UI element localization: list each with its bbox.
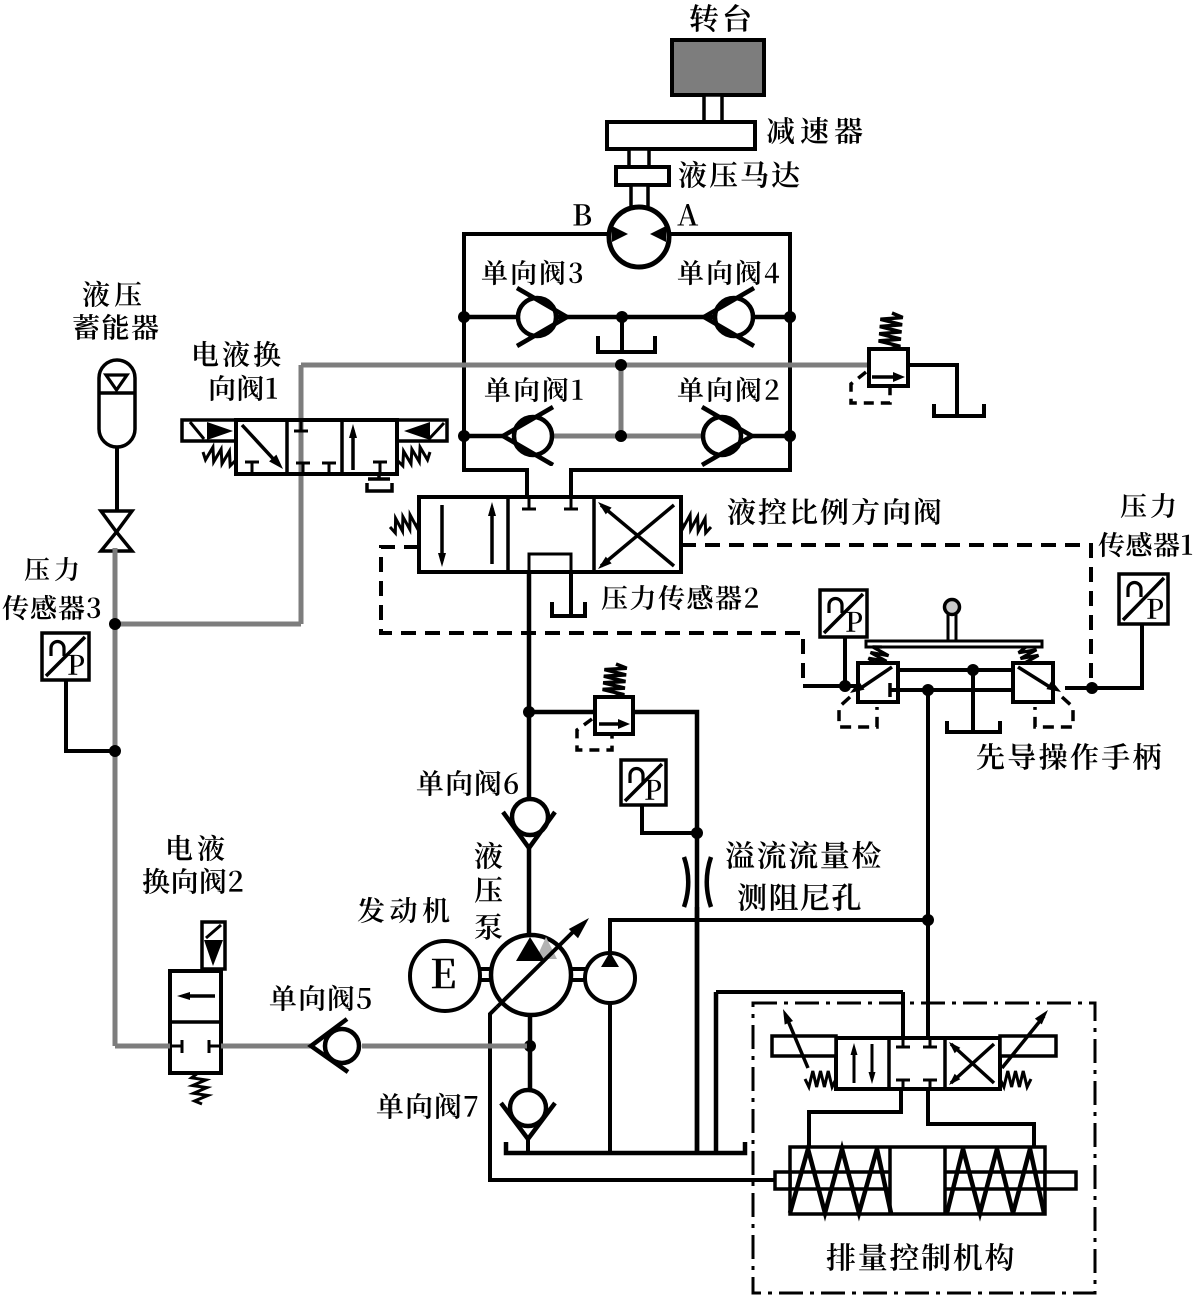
wire charge suction: [608, 1003, 612, 1155]
hydraulic motor circle: [609, 207, 669, 267]
servo left prop box: [772, 1036, 836, 1056]
EV1 pos1 arrow: [242, 425, 278, 464]
RV2 outlet: [633, 712, 697, 833]
gray stem to row2: [619, 365, 624, 436]
node RV2 tap: [523, 706, 535, 718]
servo center ports: [902, 1038, 905, 1047]
pressure sensor S2: [820, 590, 867, 637]
tank T2 in block: [598, 336, 655, 352]
label 排量控制机构: [827, 1243, 1014, 1271]
shaft turntable-reducer: [704, 95, 722, 122]
relief valve RV1 spring: [879, 313, 903, 349]
control cylinder: [790, 1147, 1045, 1214]
node S1 join: [1086, 682, 1098, 694]
EV2 body: [170, 971, 221, 1073]
RV1 arrow: [872, 375, 900, 379]
servo right prop box: [1000, 1036, 1056, 1056]
wire CV6-pump: [527, 846, 532, 937]
S4 wire: [642, 805, 695, 833]
EV1 right spring: [397, 447, 430, 466]
block bottom port stubs: [525, 470, 529, 499]
gray wire left trunk: [113, 548, 118, 1046]
EV1 body: [236, 420, 397, 474]
orifice right arc: [707, 857, 711, 907]
label 电液换向阀1: [194, 341, 280, 367]
swashplate arrow: [497, 927, 578, 1007]
EV2 spring: [192, 1073, 208, 1104]
label 测阻尼孔: [738, 883, 861, 911]
node orifice top: [691, 827, 703, 839]
node S3 join: [109, 745, 121, 757]
node charge-orifice junction: [922, 914, 934, 926]
EV1 pos2 top port: [300, 420, 303, 431]
wire row2 left black: [464, 434, 504, 439]
shaft reducer-coupling: [629, 149, 649, 167]
handle stem: [947, 613, 950, 641]
node servo tap: [922, 684, 934, 696]
gray wire to EV2: [115, 1044, 170, 1049]
label 溢流流量检: [726, 841, 881, 869]
handle spring left: [869, 647, 889, 664]
charge flow triangle: [601, 952, 619, 967]
EV2 blocked ports: [170, 1045, 182, 1048]
shaft coupling-motor: [631, 185, 648, 209]
prop valve center notch: [529, 554, 571, 572]
RV1 tank T4: [934, 404, 984, 416]
EV2 arrow left: [183, 994, 215, 998]
node row1 left: [458, 311, 470, 323]
accumulator divider: [99, 391, 135, 395]
pressure sensor S4: [621, 760, 666, 805]
handle knob: [945, 600, 960, 615]
label 减速器: [767, 117, 863, 144]
handle spring right: [1019, 647, 1039, 664]
RV1 outlet wire: [908, 365, 957, 415]
gray pilot main wire: [301, 363, 869, 368]
node gray mid: [615, 359, 627, 371]
wire pump outlet down: [528, 1014, 533, 1090]
wire pilot left: [803, 684, 858, 688]
pilot tank T6: [947, 721, 1000, 732]
cylinder rod left: [775, 1172, 790, 1189]
label 压力传感器3: [25, 557, 78, 581]
cylinder rod shaft left: [790, 1170, 890, 1174]
pump flow triangle: [516, 937, 545, 961]
pilot valve left box: [858, 663, 898, 702]
label 发动机: [358, 897, 450, 923]
node row1 mid: [616, 311, 628, 323]
gray wire suction: [362, 1044, 527, 1049]
check valve CV1: [514, 417, 552, 455]
S3 wire: [66, 680, 113, 751]
label 单向阀3: [482, 260, 582, 285]
EV1 pos1 blocked port: [251, 462, 254, 474]
wire row2 gray mid: [552, 434, 703, 439]
prop valve tank T3: [552, 602, 585, 616]
label 液控比例方向阀: [728, 498, 941, 525]
pump shadow triangle: [536, 937, 557, 959]
label E: [432, 959, 455, 988]
EV1 right solenoid box: [397, 420, 447, 441]
node pump suction: [524, 1040, 536, 1052]
wire drain 697: [695, 907, 700, 1153]
EV2 solenoid box: [202, 922, 225, 969]
RV2 spring: [603, 664, 627, 697]
node row2 left: [458, 430, 470, 442]
main pump circle: [491, 935, 571, 1015]
prop valve pos3 X: [601, 505, 674, 566]
EV1 left spring: [203, 447, 236, 466]
pilot right arrow: [1018, 667, 1053, 689]
check valve CV5: [325, 1029, 359, 1063]
cylinder rod shaft right: [945, 1170, 1045, 1174]
RV2 pilot dashed: [577, 719, 612, 750]
label 先导操作手柄: [977, 743, 1161, 770]
motor valve block enclosure: [464, 234, 790, 470]
accumulator gas triangle: [106, 375, 127, 390]
label 单向阀5: [270, 985, 371, 1011]
prop valve center ports: [528, 497, 531, 509]
port label B: [573, 204, 591, 225]
EV1 tank T5: [367, 483, 392, 491]
RV2 arrow: [599, 722, 625, 726]
wire supply to CV6: [527, 712, 532, 800]
node S2 join: [839, 680, 851, 692]
label 转台 (turntable): [690, 4, 750, 32]
shaft engine-pump: [480, 967, 495, 971]
label 单向阀4: [678, 260, 779, 285]
wire servo supply horiz: [716, 990, 903, 994]
pilot valve right box: [1013, 663, 1053, 702]
wire pilot-servo: [926, 690, 930, 1047]
label 液压蓄能器: [83, 281, 141, 307]
servo right spring: [1000, 1071, 1031, 1087]
node tank tap: [967, 664, 979, 676]
shutoff valve: [101, 511, 132, 532]
pilot dashed right: [681, 545, 1091, 682]
servo left prop arrow: [786, 1016, 808, 1068]
gray wire across to EV1: [115, 622, 301, 627]
node row1 right: [784, 311, 796, 323]
check valve CV3: [518, 298, 556, 336]
pilot upper link: [898, 668, 1013, 672]
displacement control dash-dot box: [753, 1003, 1095, 1293]
label 电液换向阀2: [168, 835, 224, 861]
accumulator shell: [99, 360, 135, 447]
cylinder rod right: [1045, 1172, 1076, 1189]
check valve CV2: [703, 417, 741, 455]
pilot tank stem: [971, 670, 975, 732]
RV1 pilot dashed: [851, 372, 890, 403]
gray wire EV2-CV5: [221, 1044, 311, 1049]
EV1 pos3 blocked port: [379, 462, 382, 474]
label 压力传感器2: [602, 585, 758, 610]
servo pos1 arrows: [853, 1048, 856, 1083]
swash feedback wire: [490, 1007, 775, 1180]
wire main supply: [527, 572, 532, 712]
shaft pump-charge: [571, 967, 586, 971]
servo pos2 X: [951, 1044, 994, 1083]
pilot lower link: [890, 688, 1013, 692]
wire accumulator-valve: [115, 447, 119, 512]
S2 wire: [843, 637, 847, 686]
label 液压泵: [475, 842, 503, 869]
servo port B wire: [928, 1089, 1034, 1147]
EV1 left solenoid box: [182, 420, 236, 441]
pilot dashed left: [381, 547, 803, 686]
reducer 减速器 box: [607, 122, 755, 149]
prop valve right spring: [681, 515, 711, 533]
servo valve body: [836, 1038, 1000, 1089]
relief valve RV1 body: [869, 349, 908, 386]
servo left spring: [805, 1071, 836, 1087]
label 单向阀1: [485, 377, 583, 402]
EV1 gray feed through: [299, 365, 304, 624]
RV2 body: [595, 697, 633, 734]
tank sump: [506, 1142, 745, 1153]
node S3 tap: [109, 618, 121, 630]
label 压力传感器1: [1121, 493, 1175, 518]
engine circle: [410, 941, 480, 1011]
prop valve body: [419, 497, 681, 572]
pressure sensor S3: [42, 633, 89, 680]
charge pump circle: [585, 953, 635, 1003]
prop valve pos1 arrows: [440, 505, 444, 561]
EV1 pos3 arrow up: [351, 430, 355, 470]
motor flow arrow right: [650, 226, 666, 242]
turntable gray box: [672, 40, 764, 95]
wire drain 716: [714, 992, 719, 1153]
label 液压马达: [679, 161, 799, 188]
check valve CV7: [510, 1090, 546, 1126]
wire to RV2: [529, 710, 595, 715]
coupling box: [616, 167, 669, 185]
label 单向阀7: [377, 1093, 478, 1119]
node row2 right: [784, 430, 796, 442]
pilot left arrow: [858, 667, 892, 690]
check valve CV6: [512, 799, 548, 835]
prop valve tank stem: [569, 572, 573, 614]
servo right prop arrow: [1002, 1016, 1044, 1068]
servo port A wire: [809, 1089, 901, 1147]
wire charge outlet: [610, 920, 926, 952]
label 单向阀6: [417, 770, 518, 796]
wire CV7-tank: [526, 1137, 530, 1155]
S1 wire: [1065, 624, 1142, 688]
label 单向阀2: [678, 377, 779, 402]
pressure sensor S1: [1119, 574, 1168, 624]
wire row2 right black: [751, 434, 790, 439]
cylinder spring left: [790, 1149, 891, 1213]
node row2 mid: [615, 430, 627, 442]
wire row1: [464, 315, 790, 320]
EV1 pos2 bottom ports: [302, 463, 305, 474]
pilot dashed bracket right: [1035, 697, 1073, 727]
wire tank stem: [620, 317, 624, 351]
wire orifice line: [695, 833, 700, 1155]
motor flow arrow left: [612, 226, 628, 242]
pilot dashed bracket left: [839, 697, 877, 727]
handle bar: [866, 641, 1042, 647]
prop valve left spring: [390, 515, 419, 533]
check valve CV4: [715, 298, 753, 336]
orifice left arc: [684, 857, 688, 907]
wire servo supply stub: [901, 992, 905, 1047]
cylinder spring right: [947, 1149, 1044, 1213]
port label A: [677, 204, 698, 226]
EV1 drain stem: [377, 474, 381, 479]
